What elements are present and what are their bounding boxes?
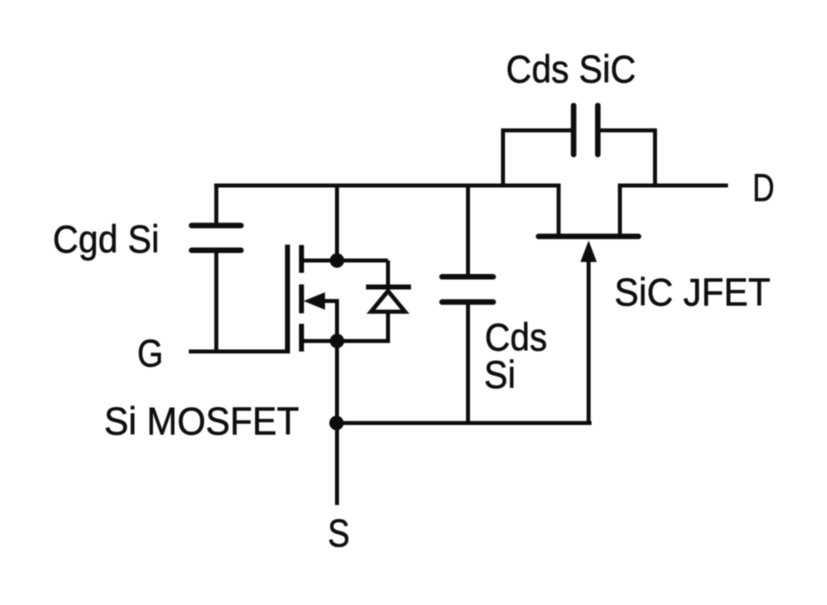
wire: MOSFET drain to top net xyxy=(335,186,339,261)
label Cgd Si xyxy=(53,218,160,261)
label Cds Si (two lines) xyxy=(484,317,547,397)
wire: top drain net (right segment to D) xyxy=(618,184,728,188)
wire: S terminal stub xyxy=(335,423,339,505)
svg-text:D: D xyxy=(753,167,775,210)
svg-text:S: S xyxy=(328,513,350,556)
transistor Q1 Si MOSFET gate plate xyxy=(285,245,290,352)
svg-text:G: G xyxy=(137,332,163,375)
capacitor Cds SiC xyxy=(503,106,655,186)
transistor Q2 gate arrow wire xyxy=(580,241,596,424)
svg-text:Cgd Si: Cgd Si xyxy=(53,218,160,261)
wire: MOSFET source down to bottom net xyxy=(335,341,339,423)
node: source junction dot xyxy=(330,334,344,348)
transistor Q2 SiC JFET xyxy=(539,186,639,237)
label Cds SiC xyxy=(506,49,636,92)
label G terminal xyxy=(137,332,163,375)
svg-text:Si MOSFET: Si MOSFET xyxy=(104,401,299,444)
label Si MOSFET xyxy=(104,401,299,444)
transistor Q1 body arrow (substrate) xyxy=(304,292,340,341)
svg-text:Cds SiC: Cds SiC xyxy=(506,49,636,92)
svg-text:SiC JFET: SiC JFET xyxy=(614,271,770,314)
label SiC JFET xyxy=(614,271,770,314)
capacitor Cds Si xyxy=(442,184,493,426)
label D terminal xyxy=(753,167,775,210)
diode D1 body diode xyxy=(337,261,411,344)
wire: gate net G xyxy=(189,350,290,354)
capacitor Cgd Si xyxy=(192,184,242,354)
wire: bottom source net xyxy=(337,421,592,425)
wire: top drain net (left segment) xyxy=(214,184,560,188)
node: bottom junction dot xyxy=(329,416,343,430)
node: drain junction dot xyxy=(330,253,344,267)
transistor Q1 source stub xyxy=(302,339,389,343)
svg-text:Si: Si xyxy=(484,354,516,397)
label S terminal xyxy=(328,513,350,556)
transistor Q1 Si MOSFET channel dashes xyxy=(299,245,304,352)
transistor Q1 drain stub xyxy=(302,259,389,263)
